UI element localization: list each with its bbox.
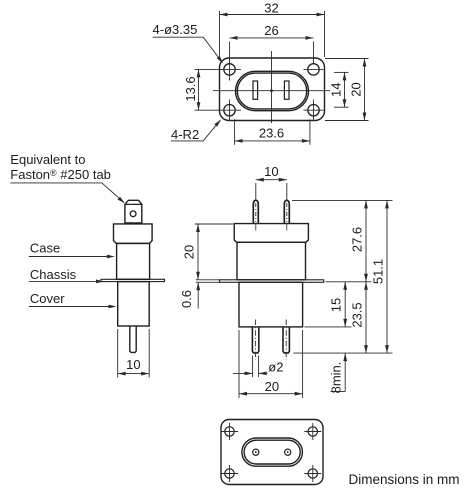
dim 51.1: dimension line xyxy=(386,200,388,353)
front view: left top pin xyxy=(253,200,258,223)
bottom view: oval inner xyxy=(244,440,300,464)
front view: pin centerline stubs below cap top xyxy=(255,224,257,231)
svg-text:Cover: Cover xyxy=(30,291,65,306)
bottom view: bottom-right mounting hole xyxy=(308,469,317,478)
front view: chassis reference extension line right xyxy=(326,281,372,283)
dim 26: extension lines xyxy=(229,42,231,64)
dim 23.6: extension lines xyxy=(234,119,236,145)
dim 10 front: extension lines xyxy=(255,183,257,200)
front view: body bottom reference extension line right xyxy=(305,326,352,328)
dim 20 top view: extension lines xyxy=(325,58,369,60)
svg-text:Dimensions in mm: Dimensions in mm xyxy=(349,472,460,487)
side view: faston tab outline xyxy=(125,200,142,223)
bottom view: bottom-left mounting hole xyxy=(225,469,234,478)
label Chassis: leader line xyxy=(29,280,99,282)
label 4-R2: leader line xyxy=(171,120,220,140)
svg-text:10: 10 xyxy=(126,357,140,372)
dim dia2: left arrow xyxy=(233,372,253,374)
dim 32: extension lines xyxy=(219,11,221,57)
svg-text:Faston® #250 tab: Faston® #250 tab xyxy=(10,167,111,182)
label 4-dia3.35: leader line xyxy=(153,37,223,62)
dim 26: dimension line xyxy=(230,37,314,39)
svg-text:8min.: 8min. xyxy=(328,362,343,394)
top view: vertical centerline xyxy=(271,51,273,123)
dim 23.5: dimension line xyxy=(365,282,367,353)
side view: tab hole xyxy=(130,211,136,217)
svg-text:Case: Case xyxy=(30,241,60,256)
svg-text:15: 15 xyxy=(329,298,344,312)
dim 15: dimension line xyxy=(344,282,346,327)
top view: oval opening outer xyxy=(236,71,309,110)
svg-text:Chassis: Chassis xyxy=(30,267,77,282)
label Case: leader line xyxy=(29,256,110,258)
side view: cover body xyxy=(118,282,150,326)
dim 20 front left: dimension line xyxy=(197,224,199,280)
dim 20 front left: extension line xyxy=(195,223,233,225)
svg-text:0.6: 0.6 xyxy=(179,290,194,308)
front view: cap block xyxy=(234,224,308,243)
top view: hole crosshair lines left column xyxy=(195,68,242,70)
front view: right bottom pin xyxy=(283,327,289,353)
bottom view: top-right mounting hole xyxy=(308,427,317,436)
top view: top-left mounting hole xyxy=(224,64,235,75)
side view: cap block xyxy=(114,224,153,244)
front view: top reference extension line xyxy=(292,199,393,201)
svg-text:4-R2: 4-R2 xyxy=(171,127,199,142)
svg-text:23.5: 23.5 xyxy=(350,302,365,327)
svg-text:10: 10 xyxy=(264,164,278,179)
svg-text:26: 26 xyxy=(264,23,278,38)
dim 27.6: dimension line xyxy=(365,200,367,281)
bottom view: top-left mounting hole xyxy=(225,427,234,436)
top view: hole crosshair lines right column xyxy=(304,68,324,70)
side view: case body xyxy=(117,243,150,279)
svg-text:32: 32 xyxy=(264,0,278,15)
bottom view: right pin hole xyxy=(285,449,291,455)
front view: right top pin xyxy=(284,200,289,223)
top view: top-right mounting hole xyxy=(308,64,319,75)
bottom view: left pin hole xyxy=(253,449,259,455)
top view: horizontal centerline xyxy=(213,90,330,92)
dim 20 front bottom: dimension line xyxy=(239,393,303,395)
dim dia2: extension lines xyxy=(252,356,254,378)
front view: right top pin centerline xyxy=(286,203,288,222)
front view: left bottom pin xyxy=(252,327,258,353)
dim 23.6: dimension line xyxy=(235,140,310,142)
dim 32: dimension line xyxy=(220,14,325,16)
dim 20 front bottom: extension lines xyxy=(238,330,240,398)
dim 10 side: extension lines xyxy=(117,329,119,378)
label Cover: leader line xyxy=(29,306,111,308)
front view: left top pin centerline xyxy=(255,203,257,222)
top view: bottom-right mounting hole xyxy=(308,105,319,116)
dim 0.6: extension lines thin plate xyxy=(196,279,220,281)
front view: chassis plate xyxy=(220,280,324,283)
front view: upper body xyxy=(237,242,306,279)
top view: right contact slot xyxy=(284,81,289,99)
side view: tab shoulder line xyxy=(125,203,142,205)
dim 10 front: dimension line xyxy=(256,179,287,181)
bottom view: flange outline xyxy=(221,420,323,485)
svg-text:13.6: 13.6 xyxy=(183,76,198,101)
side view: chassis plate xyxy=(101,279,165,281)
svg-text:14: 14 xyxy=(328,83,343,97)
dim dia2: right arrow xyxy=(259,372,268,374)
top view: hole crosshair verticals left xyxy=(229,59,231,81)
top view: center point xyxy=(270,90,272,92)
dim 8min: dimension line xyxy=(344,353,346,391)
svg-text:20: 20 xyxy=(348,82,363,96)
front view: right bottom pin centerline xyxy=(285,320,287,360)
bottom view: oval outer xyxy=(242,438,303,466)
svg-text:27.6: 27.6 xyxy=(350,227,365,252)
dim 14: extension lines xyxy=(334,71,349,73)
dim 20 top view: dimension line xyxy=(364,59,366,121)
front view: lower body xyxy=(239,282,303,327)
dim 0.6: dimension line xyxy=(197,282,199,308)
label equivalent-to-faston: leader line xyxy=(10,183,124,203)
svg-text:4-ø3.35: 4-ø3.35 xyxy=(153,22,198,37)
dim 10 side: dimension line xyxy=(118,373,150,375)
svg-text:20: 20 xyxy=(182,245,197,259)
dim 13.6: dimension line xyxy=(198,69,200,110)
front view: left bottom pin centerline xyxy=(255,320,257,360)
svg-text:51.1: 51.1 xyxy=(371,259,386,284)
svg-text:23.6: 23.6 xyxy=(259,125,284,140)
top view: oval opening inner xyxy=(237,73,306,109)
top view: left contact slot xyxy=(253,81,258,99)
side view: bottom pin xyxy=(130,326,136,352)
svg-text:20: 20 xyxy=(265,379,279,394)
top view: flange outline xyxy=(220,58,325,121)
front view: pin bottom reference extension line xyxy=(293,352,392,354)
svg-text:ø2: ø2 xyxy=(268,359,283,374)
top view: bottom-left mounting hole xyxy=(224,105,235,116)
svg-text:Equivalent to: Equivalent to xyxy=(10,152,85,167)
dim 14: dimension line xyxy=(344,72,346,107)
